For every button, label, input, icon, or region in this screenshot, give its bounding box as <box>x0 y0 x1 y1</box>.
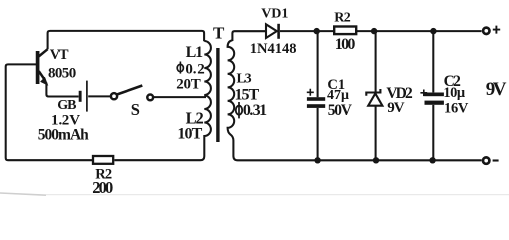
svg-text:L1: L1 <box>186 44 204 61</box>
svg-text:L2: L2 <box>186 108 204 127</box>
svg-text:0.: 0. <box>185 62 196 78</box>
svg-text:R2: R2 <box>334 11 351 26</box>
svg-text:S: S <box>131 100 140 119</box>
svg-text:10T: 10T <box>177 126 202 143</box>
svg-text:2: 2 <box>197 62 205 78</box>
svg-text:16V: 16V <box>444 100 469 116</box>
svg-text:200: 200 <box>92 178 113 196</box>
svg-text:1N4148: 1N4148 <box>250 41 297 57</box>
svg-text:31: 31 <box>253 102 268 119</box>
svg-text:GB: GB <box>57 98 76 113</box>
svg-text:9V: 9V <box>486 79 507 100</box>
svg-text:20T: 20T <box>176 77 201 93</box>
svg-text:VT: VT <box>50 47 69 63</box>
svg-text:T: T <box>213 24 225 43</box>
svg-text:100: 100 <box>335 36 356 53</box>
svg-text:9V: 9V <box>387 100 405 116</box>
svg-text:47μ: 47μ <box>327 88 349 103</box>
svg-text:50V: 50V <box>328 102 353 119</box>
svg-text:VD1: VD1 <box>261 6 288 21</box>
svg-text:8050: 8050 <box>48 66 76 82</box>
svg-text:500mAh: 500mAh <box>38 126 89 143</box>
svg-text:L3: L3 <box>237 71 252 86</box>
svg-text:10μ: 10μ <box>443 85 466 101</box>
